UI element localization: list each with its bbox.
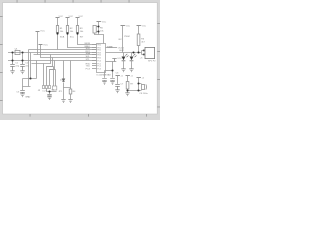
border tick left 4 (0, 99, 3, 102)
sheet border band bottom (0, 114, 160, 120)
wire power B to bus (41, 45, 97, 58)
power symbol VCC reset (97, 21, 101, 23)
wire cap pair horizontal (105, 70, 113, 72)
sheet border band left (0, 0, 3, 120)
wire left drop 2 (30, 53, 32, 79)
junction dot J2 net (48, 90, 50, 92)
border tick top 2 (44, 0, 47, 3)
wire buzzer riser (141, 51, 143, 55)
wire cap C6 drop (112, 71, 114, 78)
wire C7 top (117, 76, 119, 84)
wire cap C5 drop (104, 71, 106, 78)
svg-text:PC0: PC0 (97, 60, 101, 62)
svg-text:VCC: VCC (59, 16, 64, 18)
border tick top 3 (72, 0, 75, 3)
wire reset vertical (98, 22, 100, 35)
pin stub 6 (92, 57, 97, 59)
svg-text:GND: GND (25, 96, 30, 98)
wire crystal left drop (12, 53, 14, 61)
resistor R3 (76, 26, 78, 33)
wire J2 pin2 down (47, 89, 57, 92)
wire LED2 bottom (131, 61, 133, 69)
pin stub 10 (92, 68, 97, 70)
svg-text:OC1A: OC1A (118, 47, 124, 50)
resistor R6 (137, 34, 140, 46)
wire R5 bottom bridge (96, 31, 98, 33)
junction dot C8 top (137, 82, 139, 84)
capacitor C4 (47, 94, 51, 96)
capacitor C1 (10, 61, 15, 71)
ground C3 (20, 94, 24, 97)
crystal Y1 (15, 50, 20, 54)
junction dot wire52 a (132, 51, 134, 53)
junction dot wire52 b (137, 51, 139, 53)
LED D3 cathode bar (130, 60, 134, 62)
junction dot C8 bottom (137, 89, 139, 91)
wire R2 bottom to bus (68, 33, 97, 48)
border tick bottom 3 (145, 114, 148, 117)
sheet border band top (0, 0, 160, 3)
wire C8 stub bottom (139, 90, 142, 92)
wire net OC1A (106, 47, 118, 49)
capacitor C2 (20, 61, 25, 71)
wire reset to IC top (95, 33, 104, 44)
border tick right 3 (157, 78, 160, 81)
pin mark buzzer 2 (143, 54, 145, 56)
ground C6 (110, 81, 114, 84)
wire below zener to ground (63, 88, 65, 100)
wire R6 top (138, 26, 140, 35)
ground LED2 (129, 69, 133, 72)
power symbol VCC left B (39, 44, 43, 46)
wire R1 bottom to bus (57, 33, 59, 50)
power symbol VCC R6 (137, 25, 141, 27)
wire LED1 top (123, 53, 125, 57)
svg-text:PC2: PC2 (97, 65, 101, 67)
jumper JP1 body (52, 86, 56, 90)
connector J2 pin 1 (42, 86, 44, 89)
wire buzzer stub top (142, 50, 146, 52)
IC U1 body (97, 44, 106, 73)
svg-text:RX: RX (119, 39, 123, 41)
svg-text:PB2: PB2 (97, 49, 101, 51)
wire R1 top (57, 18, 59, 26)
wire buzzer net (106, 52, 142, 54)
pin stub 9 (92, 65, 97, 67)
wire zener bottom (64, 83, 71, 88)
resistor R4 (69, 89, 72, 94)
svg-text:TXD: TXD (86, 66, 91, 68)
wire R7 bottom (127, 89, 129, 93)
wire cap C4 drop (49, 92, 51, 95)
svg-text:VCC: VCC (126, 25, 131, 27)
svg-text:VCC: VCC (142, 25, 147, 27)
svg-text:SCK: SCK (86, 48, 91, 50)
wire bottom left horizontal upper (23, 61, 37, 79)
border tick top 4 (100, 0, 103, 3)
resistor R2 (66, 26, 68, 33)
ground C5 (102, 81, 106, 84)
svg-text:VCC: VCC (117, 58, 122, 60)
power symbol VCC R3 (76, 17, 80, 19)
ground zener (61, 100, 65, 103)
sheet border band right (157, 0, 160, 120)
junction dot cap C2 (21, 59, 23, 61)
wire XTAL1 (8, 52, 97, 54)
svg-text:VCC: VCC (102, 21, 107, 23)
capacitor C6 (110, 79, 115, 82)
capacitor C3 (20, 91, 25, 94)
svg-text:VCC: VCC (40, 31, 45, 33)
svg-text:SDA: SDA (60, 36, 65, 39)
pin stub 8 (92, 63, 97, 65)
border tick right 4 (157, 106, 160, 109)
svg-text:VCC: VCC (79, 16, 84, 18)
wire L1 (32, 55, 51, 86)
electrolytic capacitor C8 curve (145, 84, 148, 89)
power symbol VCC R7 (126, 75, 130, 77)
wire R5 top bridge (96, 26, 98, 28)
LED D3 (130, 57, 134, 61)
junction dot crystal right (21, 51, 23, 53)
zener diode D1 (62, 79, 64, 82)
LED D2 cathode bar (122, 60, 126, 62)
svg-text:IC1 ATMEGA8: IC1 ATMEGA8 (96, 74, 111, 77)
border tick left 3 (0, 71, 3, 74)
sheet border inner edge (3, 3, 158, 114)
junction dot AVCC (111, 69, 113, 71)
pin stub 5 (92, 54, 97, 56)
wire left drop 1 (28, 50, 30, 87)
ground C2 (20, 71, 24, 74)
border tick right 1 (157, 22, 160, 25)
resistor R5 (93, 25, 96, 33)
wire buzzer stub bottom (142, 54, 146, 56)
wire bottom rail (128, 90, 139, 92)
wire jumper feed 2 (50, 70, 56, 87)
LED D3 arrows (133, 54, 136, 57)
ground R4 (68, 100, 72, 103)
pin stub 7 (92, 60, 97, 62)
resistor R7 (126, 82, 129, 90)
wire R4 drop (70, 61, 72, 90)
svg-text:BUZ: BUZ (120, 50, 125, 52)
ground C1 (10, 71, 14, 74)
wire LED2 top (131, 53, 133, 57)
svg-text:SDA: SDA (86, 52, 91, 55)
power symbol VCC R2 (66, 17, 70, 19)
wire XTAL2 (8, 60, 97, 62)
svg-text:VCC: VCC (69, 16, 74, 18)
svg-text:PB5: PB5 (97, 57, 101, 59)
svg-text:PB4: PB4 (97, 54, 101, 56)
junction dot R2 (66, 32, 68, 34)
connector J2 pin 3 (48, 86, 50, 89)
junction dot R7 (126, 89, 128, 91)
junction dot cap C1 (11, 59, 13, 61)
wire R6 bottom (138, 46, 140, 53)
power symbol VCC C8 (137, 77, 141, 79)
border tick top 1 (16, 0, 19, 3)
junction dot left wire (29, 77, 31, 79)
svg-text:PC3: PC3 (97, 68, 101, 70)
wire C8 stub top (139, 83, 142, 85)
wire L2 (47, 58, 53, 86)
wire AVCC stub (106, 61, 117, 63)
capacitor C7 (115, 85, 120, 90)
wire R3 bottom to bus (78, 33, 97, 45)
ground LED1 (121, 69, 125, 72)
border tick top 5 (128, 0, 131, 3)
wire led power drop (122, 26, 124, 53)
border tick left 1 (0, 15, 3, 18)
junction dot reset bottom (97, 30, 99, 32)
wire AVCC drop (112, 62, 114, 71)
wire jumper feed 1 (47, 67, 54, 87)
electrolytic capacitor C8 (142, 84, 145, 89)
wire bus line A (34, 54, 97, 56)
power symbol VCC left A (36, 31, 40, 33)
wire power A down (37, 32, 39, 55)
wire below R4 to ground (70, 94, 72, 99)
ground R7 (125, 93, 129, 96)
svg-text:SP1 PZ: SP1 PZ (148, 60, 156, 62)
wire R3 top (77, 18, 79, 26)
svg-text:MOSI: MOSI (85, 43, 91, 45)
wire L3 (50, 61, 55, 86)
capacitor C5 (102, 79, 107, 82)
wire crystal right drop (22, 53, 24, 61)
power symbol VCC C7 (116, 75, 120, 77)
resistor R1 (56, 26, 58, 33)
wire R7 top (127, 76, 129, 82)
wire C8 vertical (138, 78, 140, 91)
svg-text:PB0: PB0 (97, 44, 101, 46)
LED D2 (122, 57, 126, 61)
border tick bottom 2 (87, 114, 90, 117)
svg-text:PWM: PWM (124, 36, 130, 38)
LED D2 arrows (125, 54, 128, 57)
svg-text:TONE: TONE (107, 46, 114, 48)
wire R2 top (67, 18, 69, 26)
pin stub 4 (92, 52, 97, 54)
pin mark buzzer 1 (143, 50, 145, 52)
power symbol VCC R1 (56, 17, 60, 19)
junction dot R1 (56, 32, 58, 34)
pin stub 1 (92, 44, 97, 46)
power symbol AVCC (112, 59, 116, 62)
svg-text:VCC: VCC (43, 44, 48, 46)
ground C4 (47, 97, 51, 100)
border tick left 2 (0, 43, 3, 46)
pin stub 2 (92, 47, 97, 49)
svg-text:C8 100u: C8 100u (139, 93, 148, 95)
buzzer LS1 body (145, 47, 155, 58)
junction dot R3 (76, 32, 78, 34)
wire LED1 bottom (123, 61, 125, 69)
power symbol VCC led (121, 25, 125, 27)
junction dot crystal left (11, 51, 13, 53)
wire bus line PB2 (29, 49, 97, 51)
border tick bottom 1 (29, 114, 32, 117)
ground C7 (115, 90, 119, 93)
connector J2 pin 2 (45, 86, 47, 89)
wire zener drop (63, 61, 65, 80)
junction dot reset top (97, 25, 99, 27)
wire bottom left horizontal lower (23, 79, 31, 91)
border tick right 2 (157, 50, 160, 53)
pin stub 3 (92, 49, 97, 51)
